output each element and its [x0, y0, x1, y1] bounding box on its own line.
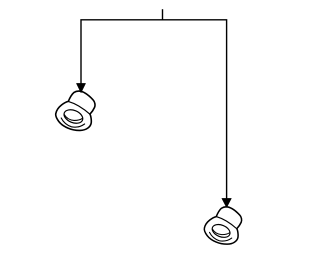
grommet 2 (bottom right)	[204, 207, 241, 244]
bracket: left vertical, horizontal, right vertical	[81, 20, 227, 201]
arrowhead right	[222, 198, 232, 207]
grommet 1 (left)	[56, 91, 95, 130]
arrowhead left	[76, 83, 85, 92]
tick leader	[162, 9, 164, 20]
